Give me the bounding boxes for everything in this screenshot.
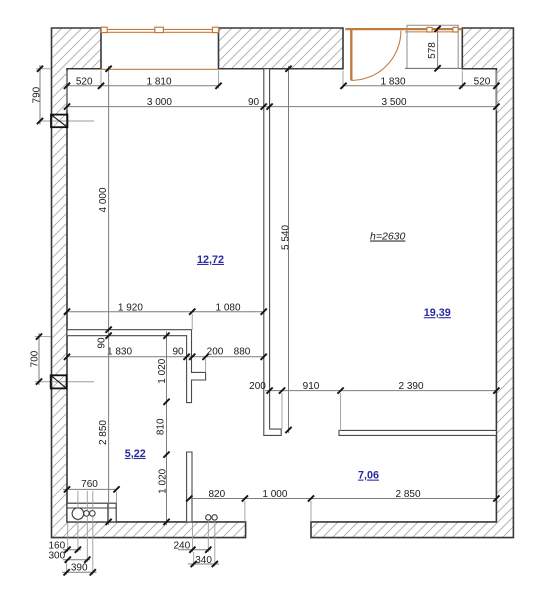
svg-text:1 020: 1 020	[157, 468, 168, 493]
svg-text:880: 880	[234, 347, 251, 358]
svg-text:820: 820	[208, 489, 225, 500]
svg-text:240: 240	[173, 541, 190, 552]
svg-text:1 830: 1 830	[107, 347, 132, 358]
svg-text:390: 390	[71, 563, 88, 574]
svg-text:1 920: 1 920	[118, 302, 143, 313]
svg-text:760: 760	[81, 479, 98, 490]
svg-text:5,22: 5,22	[125, 448, 146, 460]
svg-text:700: 700	[30, 350, 41, 367]
svg-text:300: 300	[48, 551, 65, 562]
svg-text:810: 810	[155, 418, 166, 435]
svg-text:2 850: 2 850	[98, 420, 109, 445]
svg-text:90: 90	[172, 347, 184, 358]
svg-text:910: 910	[303, 381, 320, 392]
svg-text:340: 340	[195, 555, 212, 566]
svg-text:7,06: 7,06	[358, 470, 379, 482]
svg-text:1 020: 1 020	[157, 358, 168, 383]
svg-text:90: 90	[248, 97, 260, 108]
svg-text:12,72: 12,72	[197, 254, 224, 266]
svg-text:3 000: 3 000	[147, 97, 172, 108]
svg-text:19,39: 19,39	[424, 307, 451, 319]
svg-text:1 080: 1 080	[215, 302, 240, 313]
svg-text:200: 200	[249, 381, 266, 392]
svg-text:h=2630: h=2630	[370, 231, 405, 243]
svg-text:790: 790	[31, 86, 42, 103]
svg-text:4 000: 4 000	[98, 187, 109, 212]
svg-text:2 390: 2 390	[398, 381, 423, 392]
svg-text:5 540: 5 540	[280, 225, 291, 250]
svg-text:520: 520	[474, 76, 491, 87]
svg-text:90: 90	[96, 337, 107, 349]
svg-text:578: 578	[427, 42, 438, 59]
svg-text:520: 520	[76, 76, 93, 87]
svg-text:2 850: 2 850	[395, 489, 420, 500]
svg-text:1 830: 1 830	[380, 76, 405, 87]
svg-text:1 810: 1 810	[146, 76, 171, 87]
svg-text:3 500: 3 500	[381, 97, 406, 108]
svg-text:200: 200	[207, 347, 224, 358]
svg-text:1 000: 1 000	[262, 489, 287, 500]
